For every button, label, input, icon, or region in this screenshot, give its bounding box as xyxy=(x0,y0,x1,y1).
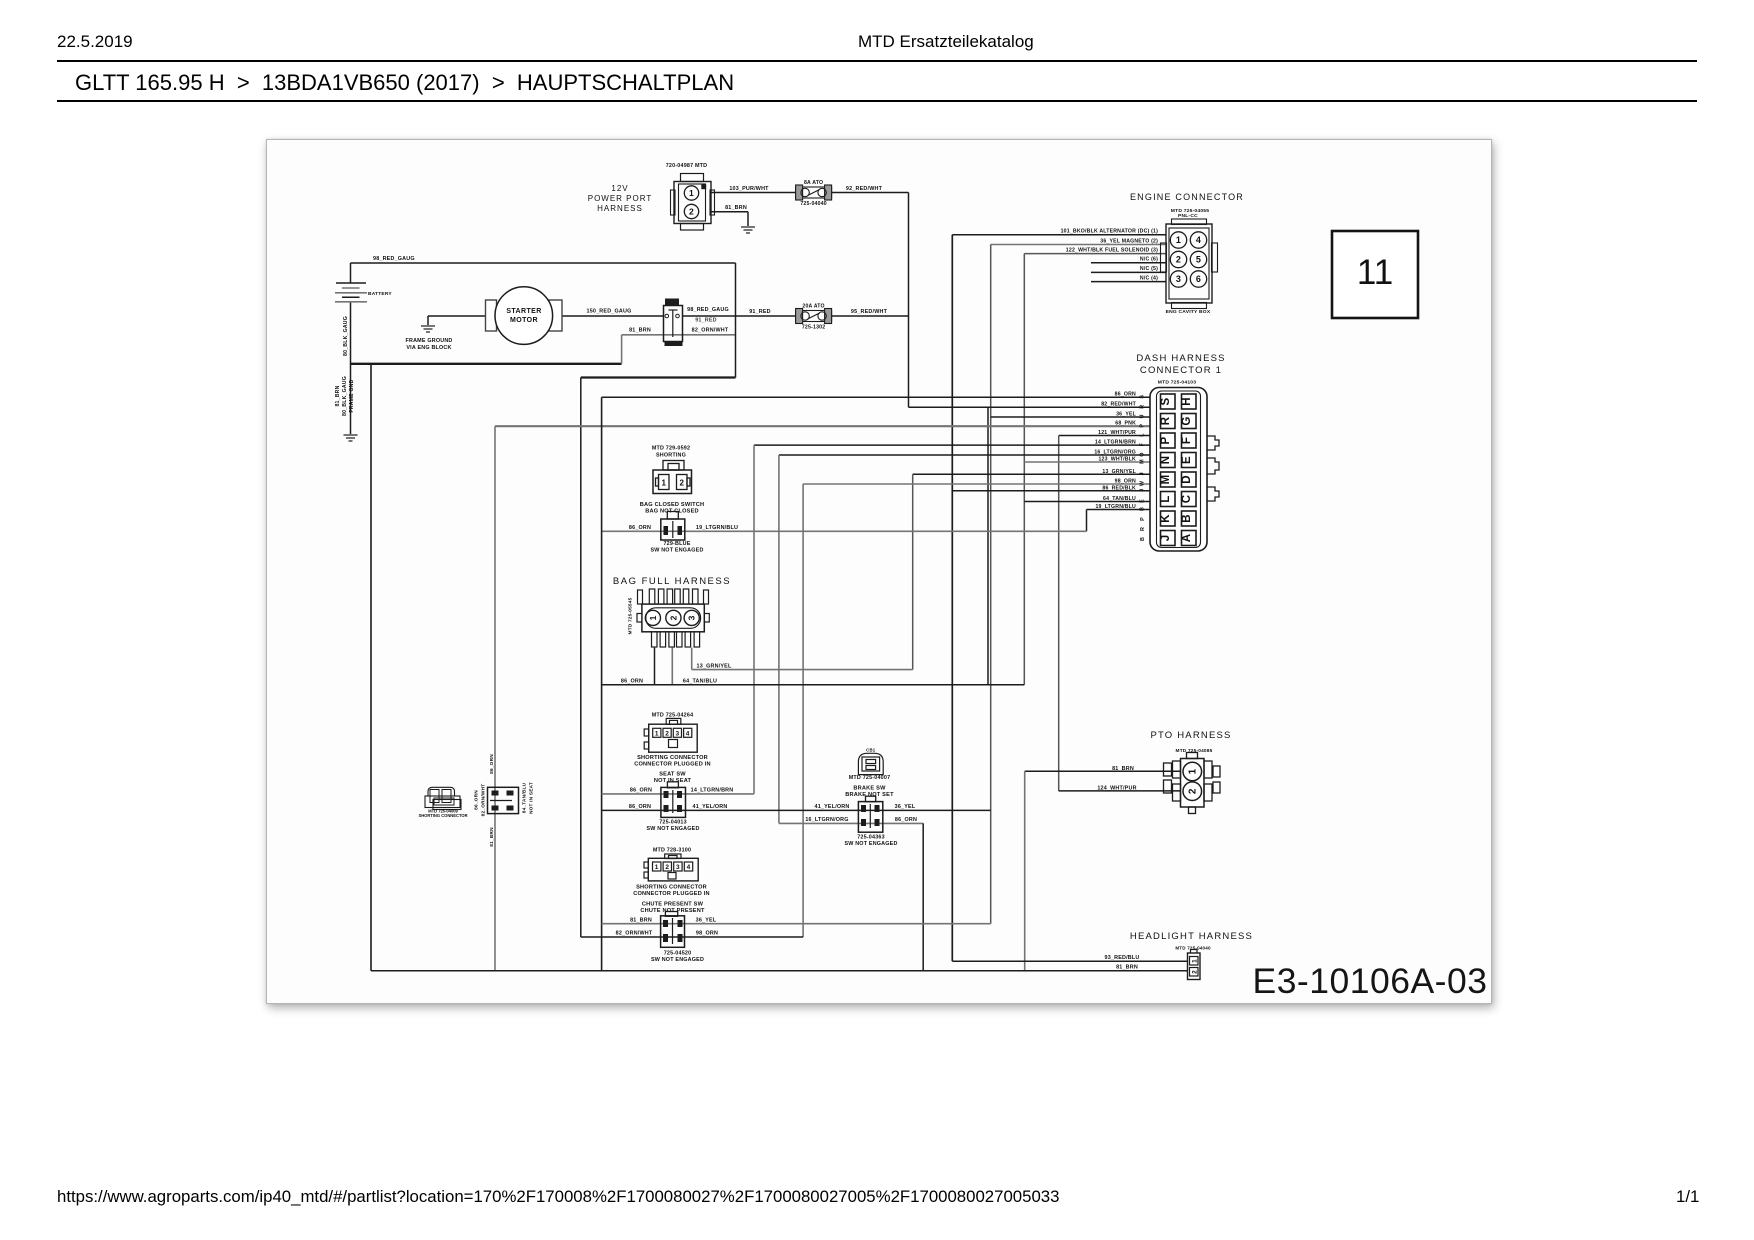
svg-text:SEAT SW: SEAT SW xyxy=(659,772,686,778)
svg-text:2: 2 xyxy=(665,864,669,871)
wire PTO pin1 81_BRN xyxy=(1025,770,1181,772)
wire dash row1 86_ORN xyxy=(602,396,1150,398)
svg-text:P: P xyxy=(1140,517,1146,521)
wire engine pin1 ALTERNATOR xyxy=(952,234,1166,236)
wire dash row7 16_LTGRN/ORG xyxy=(779,454,1150,456)
svg-text:M: M xyxy=(1160,475,1172,485)
wire battery negative down to frame ground xyxy=(350,302,352,435)
header title MTD Ersatzteilekatalog xyxy=(858,32,1034,52)
svg-text:86_ORN: 86_ORN xyxy=(621,679,643,685)
svg-text:95_RED/WHT: 95_RED/WHT xyxy=(851,309,888,315)
fuse 20A ATO 725-1302 xyxy=(796,309,832,324)
svg-text:BRAKE SW: BRAKE SW xyxy=(853,786,886,792)
solenoid starter solenoid xyxy=(665,299,679,307)
svg-text:SW NOT ENGAGED: SW NOT ENGAGED xyxy=(844,841,897,847)
svg-text:G: G xyxy=(1181,416,1193,425)
wire chute switch row2 82_ORN/WHT / 98_ORN xyxy=(581,936,803,938)
pins 3/6 engine connector xyxy=(1170,271,1186,287)
svg-text:E3-10106A-03: E3-10106A-03 xyxy=(1253,961,1488,1001)
svg-text:86_ORN: 86_ORN xyxy=(1115,392,1136,398)
wire vertical 98_ORN to chute switch xyxy=(802,484,804,937)
header date xyxy=(57,32,133,52)
svg-text:122_WHT/BLK FUEL SOLENOID (3): 122_WHT/BLK FUEL SOLENOID (3) xyxy=(1066,247,1158,253)
wire bag full bottom row 86_ORN / 64_TAN/BLU xyxy=(602,684,1025,686)
wire bus vertical 101/93_RED net xyxy=(951,235,953,962)
wire vertical 14_LTGRN/BRN to seat switch xyxy=(753,445,755,794)
svg-text:98_RED_GAUG: 98_RED_GAUG xyxy=(373,256,415,262)
svg-text:725-04013: 725-04013 xyxy=(659,820,687,826)
svg-text:S: S xyxy=(1140,395,1146,399)
svg-text:2: 2 xyxy=(668,615,678,620)
svg-text:MTD 729-0592: MTD 729-0592 xyxy=(652,446,690,452)
wire dash row4 68_PNK gray bus xyxy=(495,425,1150,427)
svg-text:81_BRN: 81_BRN xyxy=(630,917,652,923)
wire 13_GRN/YEL horizontal xyxy=(692,669,913,671)
svg-text:NOT IN SEAT: NOT IN SEAT xyxy=(654,778,692,784)
svg-text:FRAME GROUND: FRAME GROUND xyxy=(405,338,452,344)
wire starter motor to frame ground xyxy=(428,315,486,317)
pin cavity P/F dash connector xyxy=(1161,433,1176,448)
svg-text:1: 1 xyxy=(648,615,658,620)
svg-text:98_ORN: 98_ORN xyxy=(1115,479,1136,485)
switch brake xyxy=(866,796,876,802)
svg-text:D: D xyxy=(1181,475,1193,484)
wire chute switch row1 81_BRN / 36_YEL xyxy=(602,923,991,925)
svg-text:N: N xyxy=(1160,456,1172,465)
svg-text:91_RED: 91_RED xyxy=(695,318,717,324)
pin cavity N/E dash connector xyxy=(1161,453,1176,468)
pin 2 PTO xyxy=(1183,782,1202,801)
footer page number xyxy=(1676,1187,1699,1207)
svg-text:MTD 725-04264: MTD 725-04264 xyxy=(652,713,694,719)
wire bus vertical 122/123 net xyxy=(1023,254,1025,685)
svg-text:F: F xyxy=(1181,437,1193,444)
svg-text:1: 1 xyxy=(655,864,659,871)
svg-text:P: P xyxy=(1140,424,1146,428)
svg-text:U: U xyxy=(1140,414,1146,418)
pin 1 bag full connector xyxy=(645,610,660,625)
svg-text:B: B xyxy=(1140,537,1146,541)
svg-text:J: J xyxy=(1140,489,1146,492)
svg-text:86_ORN: 86_ORN xyxy=(629,525,651,531)
svg-text:20A ATO: 20A ATO xyxy=(802,304,824,310)
svg-text:J: J xyxy=(1160,535,1172,542)
svg-text:1: 1 xyxy=(1192,959,1199,963)
svg-text:PTO HARNESS: PTO HARNESS xyxy=(1150,730,1231,741)
svg-text:80_BLK_GAUG: 80_BLK_GAUG xyxy=(343,316,349,356)
svg-text:HARNESS: HARNESS xyxy=(597,204,643,213)
svg-text:B: B xyxy=(1140,507,1146,511)
svg-text:HEADLIGHT HARNESS: HEADLIGHT HARNESS xyxy=(1130,931,1253,942)
wire starter motor to solenoid 150_RED_GAUG xyxy=(562,315,663,317)
pin cavity J/A dash connector xyxy=(1161,531,1176,546)
svg-text:1: 1 xyxy=(661,479,666,488)
svg-text:N/C (5): N/C (5) xyxy=(1140,266,1158,272)
wire bag full pin3 down xyxy=(691,648,693,670)
svg-text:82_ORN/WHT: 82_ORN/WHT xyxy=(616,931,653,937)
svg-text:SW NOT ENGAGED: SW NOT ENGAGED xyxy=(650,548,703,554)
connector dash side tabs xyxy=(1207,436,1219,450)
wire dash row10 98_ORN xyxy=(803,483,1150,485)
svg-text:3: 3 xyxy=(675,731,679,738)
svg-text:BATTERY: BATTERY xyxy=(368,291,392,297)
switch mini rotated xyxy=(488,787,519,813)
pin cavity R/G dash connector xyxy=(1161,414,1176,429)
wire bag full pin2 down xyxy=(671,648,673,685)
svg-text:L: L xyxy=(1140,433,1146,437)
svg-text:1: 1 xyxy=(1176,235,1181,245)
breadcrumb title xyxy=(75,70,734,96)
svg-text:36_YEL: 36_YEL xyxy=(696,917,717,923)
connector brake dome xyxy=(858,753,883,774)
svg-text:1: 1 xyxy=(689,188,694,198)
connector engine 6-pin xyxy=(1161,219,1218,309)
svg-text:L: L xyxy=(1160,495,1172,502)
svg-text:36_YEL: 36_YEL xyxy=(895,804,916,810)
svg-text:BAG FULL HARNESS: BAG FULL HARNESS xyxy=(613,576,731,587)
svg-text:R: R xyxy=(1160,416,1172,425)
svg-text:SW NOT ENGAGED: SW NOT ENGAGED xyxy=(651,957,704,963)
svg-text:86_ORN: 86_ORN xyxy=(489,754,495,774)
switch chute present xyxy=(665,912,677,917)
wire seat-brake switch row 86_ORN / 41_YEL/ORN / 36_YEL xyxy=(602,809,991,811)
wire vertical 19_LTGRN/BLU xyxy=(1086,510,1088,532)
svg-text:725-04520: 725-04520 xyxy=(664,951,692,957)
svg-text:K: K xyxy=(1160,514,1172,523)
wire 93_RED/BLU to headlight xyxy=(952,960,1187,962)
wire 98_RED_GAUG vertical branch xyxy=(735,263,737,378)
svg-text:B: B xyxy=(1181,514,1193,523)
svg-text:ENG CAVITY BOX: ENG CAVITY BOX xyxy=(1166,309,1211,315)
wire solenoid 81_BRN / 82_ORN/WHT gray row xyxy=(622,334,736,336)
svg-text:82_ORN/WHT: 82_ORN/WHT xyxy=(481,784,487,817)
ground 12V port xyxy=(741,227,755,233)
svg-text:81_BRN: 81_BRN xyxy=(629,328,651,334)
svg-text:68_PNK: 68_PNK xyxy=(1115,421,1136,427)
wire engine pin2 MAGNETO 36_YEL xyxy=(991,244,1166,246)
svg-text:MTD 728-3100: MTD 728-3100 xyxy=(653,848,691,854)
svg-text:P: P xyxy=(1160,436,1172,444)
wire dash row11 86_RED/BLK xyxy=(952,490,1150,492)
svg-text:82_ORN/WHT: 82_ORN/WHT xyxy=(692,328,729,334)
svg-text:720-04987 MTD: 720-04987 MTD xyxy=(666,163,708,169)
pins 2/5 engine connector xyxy=(1170,251,1186,267)
svg-text:86_ORN: 86_ORN xyxy=(630,788,652,794)
svg-text:W: W xyxy=(1140,480,1146,486)
svg-text:80_BLK_GAUG: 80_BLK_GAUG xyxy=(342,376,348,416)
svg-text:NOT IN SEAT: NOT IN SEAT xyxy=(529,782,535,814)
pin cavity M/D dash connector xyxy=(1161,472,1176,487)
svg-text:R: R xyxy=(1140,405,1146,409)
svg-text:93_RED/BLU: 93_RED/BLU xyxy=(1105,955,1140,961)
connector bag closed switch 2-pin xyxy=(653,461,692,494)
svg-text:CONNECTOR PLUGGED IN: CONNECTOR PLUGGED IN xyxy=(633,891,710,897)
wire riser gray 81_BRN xyxy=(621,335,623,364)
svg-text:E: E xyxy=(1181,456,1193,464)
svg-text:81_BRN: 81_BRN xyxy=(335,385,341,406)
wire 98_RED_GAUG battery to solenoid branch (top horizontal) xyxy=(351,262,736,264)
svg-text:S: S xyxy=(1160,397,1172,405)
pin 3 bag full connector xyxy=(684,610,699,625)
wire 12V port pin1 103_PUR/WHT xyxy=(711,192,796,194)
svg-text:5: 5 xyxy=(1196,255,1201,265)
fuse 8A ATO 725-04040 xyxy=(796,185,832,200)
svg-text:725-04363: 725-04363 xyxy=(857,835,885,841)
svg-text:J: J xyxy=(1140,472,1146,475)
pin 1 PTO xyxy=(1183,762,1202,781)
svg-text:POWER PORT: POWER PORT xyxy=(588,194,653,203)
svg-text:14_LTGRN/BRN: 14_LTGRN/BRN xyxy=(1095,440,1136,446)
svg-text:MTD 725-04007: MTD 725-04007 xyxy=(849,775,891,781)
svg-text:19_LTGRN/BLU: 19_LTGRN/BLU xyxy=(696,525,738,531)
wire engine pin5 N/C stub xyxy=(1091,271,1166,273)
wire dash row8 123_WHT/BLK xyxy=(1024,461,1150,463)
svg-text:N/C (6): N/C (6) xyxy=(1140,257,1158,263)
footer url xyxy=(57,1187,1059,1207)
header rule 2 xyxy=(57,100,1697,102)
svg-text:86_ORN: 86_ORN xyxy=(629,804,651,810)
svg-text:PNL-CC: PNL-CC xyxy=(1178,213,1198,219)
svg-text:13_GRN/YEL: 13_GRN/YEL xyxy=(697,664,732,670)
wire dash row2 82_RED/WHT xyxy=(909,406,1151,408)
wire dash row5 121_WHT/PUR xyxy=(1059,435,1150,437)
svg-text:H: H xyxy=(1181,397,1193,406)
wire dash row9 13_GRN/YEL xyxy=(913,473,1150,475)
ground starter frame xyxy=(421,326,435,332)
svg-text:SHORTING CONNECTOR: SHORTING CONNECTOR xyxy=(637,755,708,761)
svg-text:19_LTGRN/BLU: 19_LTGRN/BLU xyxy=(1095,504,1136,510)
wire engine pin4 N/C stub xyxy=(1091,281,1166,283)
svg-text:91_RED: 91_RED xyxy=(749,309,771,315)
svg-text:C: C xyxy=(1181,495,1193,504)
svg-text:BAG CLOSED SWITCH: BAG CLOSED SWITCH xyxy=(640,502,704,508)
svg-text:4: 4 xyxy=(1196,235,1201,245)
switch seat xyxy=(667,782,678,788)
wire engine pin3 FUEL SOLENOID 122_WHT/BLK xyxy=(1024,253,1166,255)
ground battery frame xyxy=(344,435,358,441)
svg-text:123_WHT/BLK: 123_WHT/BLK xyxy=(1098,457,1136,463)
wire 12V port pin2 81_BRN xyxy=(711,211,748,213)
wire solenoid to fuse 91_RED xyxy=(683,315,796,317)
wire vertical 121_WHT/PUR to PTO xyxy=(1058,436,1060,791)
svg-text:CB1: CB1 xyxy=(866,748,876,753)
switch bag closed xyxy=(667,512,678,520)
svg-text:725-1302: 725-1302 xyxy=(802,325,825,331)
wire vertical 81_BRN PTO to bottom bus xyxy=(1024,771,1026,971)
svg-text:64_TAN/BLU: 64_TAN/BLU xyxy=(1103,496,1136,502)
wire left long vertical 81_BRN to bottom xyxy=(370,364,372,971)
svg-text:3: 3 xyxy=(687,615,697,620)
svg-text:150_RED_GAUG: 150_RED_GAUG xyxy=(587,309,632,315)
svg-text:2: 2 xyxy=(689,207,694,217)
svg-text:FRAME GND: FRAME GND xyxy=(349,379,355,412)
svg-text:2: 2 xyxy=(679,479,684,488)
svg-text:1: 1 xyxy=(655,731,659,738)
svg-text:98_RED_GAUG: 98_RED_GAUG xyxy=(687,307,729,313)
svg-text:SW NOT ENGAGED: SW NOT ENGAGED xyxy=(646,826,699,832)
svg-text:12V: 12V xyxy=(611,184,628,193)
svg-text:41_YEL/ORN: 41_YEL/ORN xyxy=(815,804,850,810)
wire vertical 13_GRN/YEL to bag full xyxy=(912,474,914,669)
svg-text:CONNECTOR PLUGGED IN: CONNECTOR PLUGGED IN xyxy=(634,762,711,768)
svg-text:92_RED/WHT: 92_RED/WHT xyxy=(846,186,883,192)
svg-text:3: 3 xyxy=(676,864,680,871)
wire bus vertical 36_YEL net xyxy=(990,245,992,924)
svg-text:86_ORN: 86_ORN xyxy=(474,790,480,810)
connector dash harness 16-pin shell xyxy=(1150,388,1207,552)
svg-text:2: 2 xyxy=(1176,255,1181,265)
wire bag full pin1 down xyxy=(654,648,656,685)
svg-text:729-BLUE: 729-BLUE xyxy=(663,541,690,547)
svg-text:E: E xyxy=(1140,499,1146,503)
schematic sheet xyxy=(266,139,1492,1004)
svg-text:36_YEL MAGNETO (2): 36_YEL MAGNETO (2) xyxy=(1100,238,1158,244)
svg-text:SHORTING CONNECTOR: SHORTING CONNECTOR xyxy=(636,885,707,891)
wire dash row3 36_YEL xyxy=(991,416,1150,418)
connector headlight 2-pin xyxy=(1188,950,1201,980)
svg-text:86_RED/BLK: 86_RED/BLK xyxy=(1102,485,1136,491)
svg-text:81_BRN: 81_BRN xyxy=(489,827,495,847)
svg-text:N/C (4): N/C (4) xyxy=(1140,275,1158,281)
svg-text:16_LTGRN/ORG: 16_LTGRN/ORG xyxy=(1094,450,1136,456)
connector PTO 2-pin xyxy=(1164,753,1221,814)
svg-text:81_BRN: 81_BRN xyxy=(1116,965,1138,971)
connector left shorting mini xyxy=(425,787,461,809)
pin cavity K/B dash connector xyxy=(1161,511,1176,526)
svg-text:STARTER: STARTER xyxy=(506,308,541,315)
svg-text:11: 11 xyxy=(1357,253,1393,292)
svg-text:124_WHT/PUR: 124_WHT/PUR xyxy=(1097,785,1136,791)
wire dash row13 19_LTGRN/BLU xyxy=(1087,509,1151,511)
wire thick junction row xyxy=(581,376,736,378)
wire 81_BRN bottom bus to headlight xyxy=(371,970,1188,972)
svg-text:41_YEL/ORN: 41_YEL/ORN xyxy=(693,804,728,810)
svg-text:81_BRN: 81_BRN xyxy=(725,205,747,211)
wire bag closed switch row 86_ORN / 19_LTGRN/BLU xyxy=(602,530,1087,532)
svg-text:MTD 725-05545: MTD 725-05545 xyxy=(628,597,634,634)
wire dash row6 14_LTGRN/BRN xyxy=(754,444,1150,446)
svg-text:36_YEL: 36_YEL xyxy=(1116,412,1136,418)
svg-text:4: 4 xyxy=(686,731,690,738)
wire vertical 16_LTGRN/ORG to brake switch xyxy=(778,455,780,823)
svg-text:16_LTGRN/ORG: 16_LTGRN/ORG xyxy=(805,817,848,823)
svg-text:M: M xyxy=(1140,459,1146,464)
motor STARTER MOTOR xyxy=(486,300,497,331)
svg-text:DASH HARNESS: DASH HARNESS xyxy=(1136,353,1225,364)
pin cavity L/C dash connector xyxy=(1161,492,1176,507)
header rule 1 xyxy=(57,60,1697,62)
svg-text:6: 6 xyxy=(1196,274,1201,284)
pin 1 of 12V connector xyxy=(684,186,698,200)
svg-text:64_TAN/BLU: 64_TAN/BLU xyxy=(683,679,717,685)
svg-text:2: 2 xyxy=(1192,970,1199,974)
svg-text:82_RED/WHT: 82_RED/WHT xyxy=(1101,402,1136,408)
svg-text:MTD 725-04103: MTD 725-04103 xyxy=(1158,380,1196,386)
svg-text:CHUTE PRESENT SW: CHUTE PRESENT SW xyxy=(642,902,704,908)
svg-text:725-04040: 725-04040 xyxy=(800,201,827,207)
svg-text:VIA ENG BLOCK: VIA ENG BLOCK xyxy=(406,345,451,351)
svg-text:R: R xyxy=(1140,527,1146,531)
wire gray vertical 68_PNK to bottom xyxy=(494,426,496,971)
svg-text:ENGINE CONNECTOR: ENGINE CONNECTOR xyxy=(1130,192,1244,202)
svg-text:O: O xyxy=(1140,452,1146,456)
svg-text:1: 1 xyxy=(1187,768,1198,774)
svg-text:84_TAN/BLU: 84_TAN/BLU xyxy=(522,782,528,813)
wire battery positive riser xyxy=(350,263,352,283)
svg-text:BRAKE NOT SET: BRAKE NOT SET xyxy=(845,792,894,798)
svg-text:81_BRN: 81_BRN xyxy=(1112,766,1134,772)
connector chute shorting 4-pin xyxy=(644,854,698,881)
wire vertical 92_RED/WHT to dash row2 xyxy=(908,193,910,408)
svg-text:SHORTING CONNECTOR: SHORTING CONNECTOR xyxy=(418,813,467,818)
wire fuse to junction 95_RED/WHT xyxy=(832,315,909,317)
svg-text:F: F xyxy=(1140,442,1146,446)
svg-text:2: 2 xyxy=(1187,788,1198,794)
svg-text:103_PUR/WHT: 103_PUR/WHT xyxy=(729,186,769,192)
svg-text:121_WHT/PUR: 121_WHT/PUR xyxy=(1098,430,1136,436)
callout box 11 xyxy=(1332,231,1418,318)
pin 2 of 12V connector xyxy=(684,204,698,218)
svg-text:14_LTGRN/BRN: 14_LTGRN/BRN xyxy=(691,788,734,794)
wire vertical 86_ORN main bus xyxy=(601,397,603,971)
wire brake switch gray row 16_LTGRN/ORG / 86_ORN xyxy=(779,822,923,824)
svg-text:13_GRN/YEL: 13_GRN/YEL xyxy=(1102,469,1136,475)
wire PTO pin2 124_WHT/PUR xyxy=(1059,790,1181,792)
connector bag full 3-pin xyxy=(637,589,709,647)
svg-text:86_ORN: 86_ORN xyxy=(895,817,917,823)
wire vertical 86_ORN brake to bottom xyxy=(922,823,924,970)
connector seat shorting 4-pin xyxy=(644,718,697,752)
svg-text:98_ORN: 98_ORN xyxy=(696,931,718,937)
pin 2 bag full connector xyxy=(666,610,681,625)
connector 12V power port xyxy=(671,174,715,231)
svg-text:MOTOR: MOTOR xyxy=(510,317,538,324)
wire seat switch gray row 86_ORN / 14_LTGRN/BRN xyxy=(602,793,754,795)
svg-text:CONNECTOR 1: CONNECTOR 1 xyxy=(1140,365,1222,376)
battery BATTERY xyxy=(335,283,367,302)
wire engine pin6 N/C stub xyxy=(1091,262,1166,264)
svg-text:3: 3 xyxy=(1176,274,1181,284)
wire fuse to corner 92_RED/WHT xyxy=(832,192,909,194)
svg-text:101_BKO/BLK ALTERNATOR (DC) (: 101_BKO/BLK ALTERNATOR (DC) (1) xyxy=(1061,229,1158,235)
svg-text:4: 4 xyxy=(687,864,691,871)
wire vertical bus to chute switch 82_ORN/WHT xyxy=(580,378,582,938)
wire thick battery ground bus xyxy=(351,363,622,365)
svg-text:A: A xyxy=(1181,534,1193,543)
svg-text:8A ATO: 8A ATO xyxy=(804,180,823,186)
pin cavity S/H dash connector xyxy=(1161,394,1176,409)
wire dash row12 64_TAN/BLU xyxy=(1024,501,1150,503)
pins 1/4 engine connector xyxy=(1170,232,1186,248)
wire vertical junction 82_RED/WHT to bag full row xyxy=(987,407,989,685)
svg-text:SHORTING: SHORTING xyxy=(656,453,686,459)
svg-text:2: 2 xyxy=(665,731,669,738)
